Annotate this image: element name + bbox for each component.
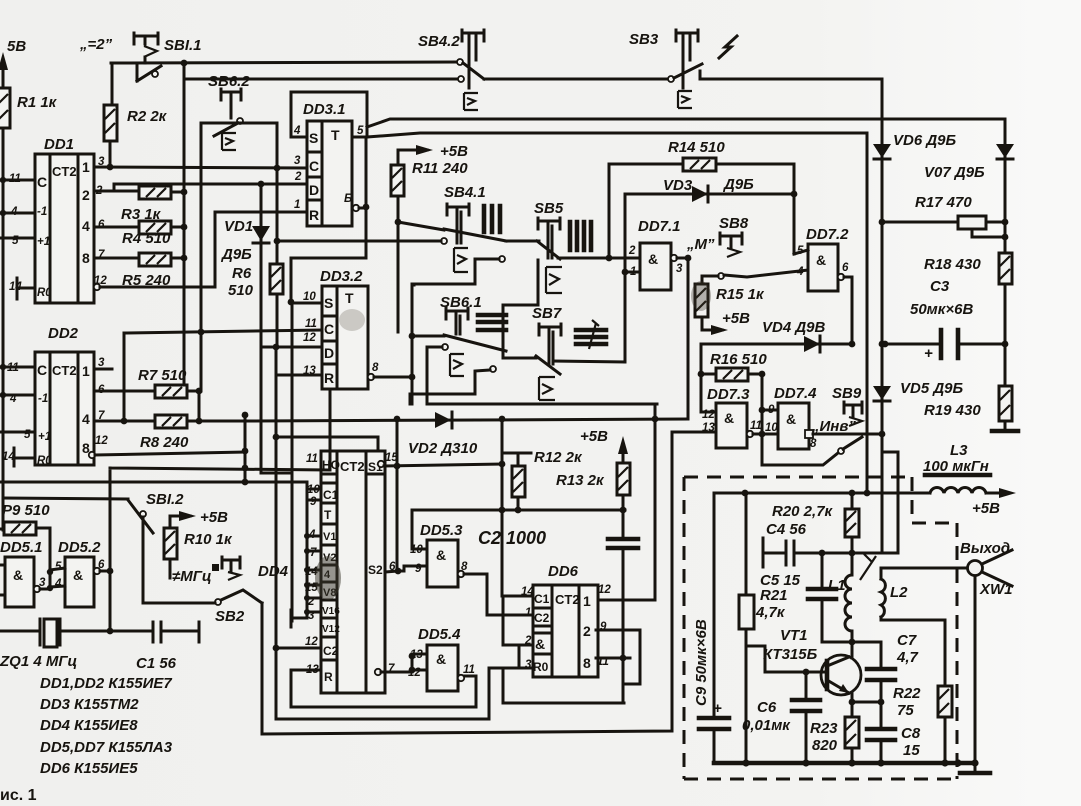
scan smudge in DD3.2 bbox=[339, 309, 365, 331]
wire SB6.2 left drop bbox=[200, 123, 203, 391]
svg-text:R0: R0 bbox=[37, 287, 52, 299]
svg-text:820: 820 bbox=[812, 737, 838, 754]
wire DD4 C2 loop2 bbox=[276, 668, 519, 719]
svg-text:R8 240: R8 240 bbox=[140, 434, 189, 451]
svg-text:6: 6 bbox=[98, 219, 105, 231]
wire long horizontal y482 bbox=[0, 482, 307, 489]
svg-text:C4 56: C4 56 bbox=[766, 521, 807, 538]
wire R14/VD3 node to DD7.2 pin5 bbox=[794, 250, 808, 254]
svg-text:T: T bbox=[345, 290, 354, 306]
resistor R22 bbox=[893, 685, 952, 763]
node +5V left rail arrow bbox=[0, 38, 26, 530]
svg-text:R: R bbox=[324, 370, 334, 386]
svg-text:&: & bbox=[73, 567, 83, 583]
svg-text:-1: -1 bbox=[38, 393, 48, 405]
wire DD7.1 out to SB8 bbox=[677, 257, 688, 260]
wire C input DD3.2 from R7 loop bbox=[124, 330, 322, 333]
svg-text:L2: L2 bbox=[890, 584, 908, 601]
wire DD3.2 out8 bbox=[374, 285, 414, 404]
svg-text:D: D bbox=[324, 345, 334, 361]
capacitor C6 bbox=[742, 672, 820, 763]
svg-text:+5В: +5В bbox=[440, 143, 468, 160]
svg-text:5В: 5В bbox=[7, 38, 26, 55]
IC DD6 counter K155IE5 bbox=[521, 563, 611, 677]
svg-text:11: 11 bbox=[463, 664, 475, 676]
svg-text:2: 2 bbox=[628, 245, 636, 257]
svg-text:&: & bbox=[13, 567, 23, 583]
svg-text:+: + bbox=[924, 345, 933, 362]
wire DD6 pin11 out bbox=[596, 657, 630, 660]
svg-text:DD1,DD2 К155ИЕ7: DD1,DD2 К155ИЕ7 bbox=[40, 675, 172, 692]
svg-text:+1: +1 bbox=[38, 431, 51, 443]
node +5V R13 arrow bbox=[580, 428, 628, 463]
svg-text:10: 10 bbox=[765, 422, 778, 434]
svg-text:12: 12 bbox=[95, 435, 108, 447]
switch SB4.2 bbox=[418, 30, 484, 110]
svg-text:C2 1000: C2 1000 bbox=[478, 528, 546, 548]
wire DD1 out1 to DD3.1 C bbox=[94, 167, 307, 168]
svg-text:DD2: DD2 bbox=[48, 325, 79, 342]
switch SB9 bbox=[832, 385, 862, 454]
switch SB3 bbox=[629, 30, 702, 108]
svg-text:С9 50мк×6В: С9 50мк×6В bbox=[693, 619, 710, 706]
svg-text:1: 1 bbox=[583, 593, 591, 609]
svg-text:S: S bbox=[309, 130, 318, 146]
svg-text:C: C bbox=[37, 174, 47, 190]
wire DD5.3 pin9 from S2 bbox=[398, 566, 427, 571]
IC DD5.2 NAND bbox=[54, 539, 105, 607]
svg-text:R0: R0 bbox=[37, 455, 52, 467]
svg-text:&: & bbox=[436, 651, 446, 667]
svg-text:DD1: DD1 bbox=[44, 136, 74, 153]
svg-text:DD7.3: DD7.3 bbox=[707, 386, 750, 403]
wire rail to SB1.2 area bbox=[3, 389, 330, 631]
svg-text:R: R bbox=[309, 207, 319, 223]
svg-text:R15 1к: R15 1к bbox=[716, 286, 765, 303]
wire R input DD3.2 bbox=[276, 374, 322, 377]
resistor R3 bbox=[94, 186, 187, 223]
diode VD6 bbox=[873, 132, 957, 159]
svg-text:R21: R21 bbox=[760, 587, 788, 604]
svg-text:V07 Д9Б: V07 Д9Б bbox=[924, 164, 985, 181]
resistor R14 bbox=[668, 139, 794, 254]
wire emitter node bbox=[852, 693, 881, 702]
svg-text:&: & bbox=[648, 251, 658, 267]
svg-text:S: S bbox=[324, 295, 333, 311]
wire junction up to R14 bbox=[609, 164, 683, 258]
svg-text:C: C bbox=[324, 321, 334, 337]
wire DD2 pin12 line bbox=[95, 452, 245, 455]
resistor R19 with ground bbox=[924, 344, 1018, 431]
svg-text:C: C bbox=[37, 362, 47, 378]
svg-text:CT2: CT2 bbox=[52, 164, 77, 179]
scan smudge near DD4 pins bbox=[315, 556, 341, 600]
ground symbol bbox=[974, 763, 977, 772]
svg-text:VD2 Д310: VD2 Д310 bbox=[408, 440, 478, 457]
svg-text:DD5.3: DD5.3 bbox=[420, 522, 463, 539]
wire SB6.1 contact to lower bus bbox=[427, 347, 657, 404]
inductor L2 bbox=[881, 568, 945, 686]
wire DD5.3 out to DD6 C2 bbox=[464, 574, 533, 615]
transistor VT1 bbox=[763, 627, 861, 695]
svg-text:&: & bbox=[724, 410, 734, 426]
svg-text:CT2: CT2 bbox=[555, 592, 580, 607]
svg-text:12: 12 bbox=[305, 636, 318, 648]
core arrow between L1 L2 bbox=[860, 554, 876, 580]
svg-text:S2: S2 bbox=[368, 563, 383, 577]
svg-text:V12: V12 bbox=[322, 624, 340, 635]
svg-text:+: + bbox=[713, 700, 722, 717]
long wire upper y119 bbox=[367, 119, 1005, 127]
svg-text:CT2: CT2 bbox=[340, 459, 365, 474]
resistor R11 bbox=[391, 160, 468, 222]
resistor R6 bbox=[228, 168, 283, 350]
svg-text:≠МГц: ≠МГц bbox=[172, 568, 212, 585]
svg-text:Д9Б: Д9Б bbox=[722, 176, 754, 193]
svg-text:R20 2,7к: R20 2,7к bbox=[772, 503, 834, 520]
svg-text:7: 7 bbox=[310, 547, 317, 559]
svg-text:V1: V1 bbox=[323, 531, 336, 543]
svg-text:CT2: CT2 bbox=[52, 363, 77, 378]
wire oscillator ground rail bbox=[714, 761, 975, 766]
svg-text:5: 5 bbox=[55, 561, 62, 573]
ferrite bars SB4.1 bbox=[484, 206, 500, 232]
svg-text:+1: +1 bbox=[37, 236, 50, 248]
wire DD6 R0 big loop bbox=[503, 668, 624, 703]
svg-text:4: 4 bbox=[54, 578, 62, 590]
svg-text:SB6.2: SB6.2 bbox=[208, 73, 250, 90]
svg-text:R22: R22 bbox=[893, 685, 921, 702]
IC DD5.3 NAND bbox=[410, 522, 468, 587]
svg-text:2: 2 bbox=[583, 623, 591, 639]
svg-text:R: R bbox=[324, 670, 333, 684]
svg-text:+5В: +5В bbox=[200, 509, 228, 526]
svg-text:3: 3 bbox=[676, 263, 683, 275]
switch SB1.2 bbox=[128, 491, 184, 603]
wire DD7.2 out to VD4 line bbox=[844, 277, 852, 344]
wire node line y510 bbox=[412, 509, 625, 512]
svg-text:&: & bbox=[786, 411, 796, 427]
resistor R1 bbox=[0, 88, 58, 128]
wire DD4 S2 out bbox=[385, 571, 398, 572]
svg-text:14: 14 bbox=[521, 586, 534, 598]
wire DD1 pin12 to SB6.2 line bbox=[100, 286, 215, 289]
switch SB8 bbox=[718, 215, 808, 279]
wire L2 top to XW1 bbox=[881, 567, 967, 570]
IC DD7.3 NAND bbox=[702, 386, 762, 448]
wire DD5.2 out bbox=[100, 570, 110, 573]
svg-text:L1: L1 bbox=[828, 577, 846, 594]
wire SB8 contact to R15 bbox=[702, 276, 718, 284]
capacitor C2 bbox=[478, 510, 638, 659]
resistor R16 bbox=[701, 351, 767, 381]
svg-text:R12 2к: R12 2к bbox=[534, 449, 583, 466]
wire DD1 out2 to DD3.1 D bbox=[114, 184, 307, 190]
wire lower line to SB4.2 bbox=[184, 63, 460, 79]
svg-text:8: 8 bbox=[82, 250, 90, 266]
wire SB5 output to DD7.1 bbox=[558, 257, 640, 260]
wire VD4 node down to R16 bbox=[701, 344, 716, 412]
svg-text:11: 11 bbox=[750, 420, 762, 432]
wire SB9 loop back to DD7.3 area bbox=[762, 436, 838, 465]
svg-text:1: 1 bbox=[82, 363, 90, 379]
svg-text:КТ315Б: КТ315Б bbox=[763, 646, 818, 663]
resistor R2 bbox=[104, 105, 168, 167]
svg-text:1: 1 bbox=[82, 159, 90, 175]
svg-text:4: 4 bbox=[293, 125, 301, 137]
svg-text:VT1: VT1 bbox=[780, 627, 808, 644]
wire oscillator +5V rail bbox=[714, 492, 930, 495]
resistor R9 bbox=[0, 502, 50, 588]
svg-text:R1 1к: R1 1к bbox=[17, 94, 58, 111]
svg-text:15: 15 bbox=[903, 742, 920, 759]
svg-text:8: 8 bbox=[583, 655, 591, 671]
svg-text:SB7: SB7 bbox=[532, 305, 562, 322]
svg-text:VD4 Д9В: VD4 Д9В bbox=[762, 319, 826, 336]
switch SB6.1 bbox=[440, 294, 506, 376]
svg-text:C1 56: C1 56 bbox=[136, 655, 177, 672]
svg-text:R13 2к: R13 2к bbox=[556, 472, 605, 489]
svg-text:R18 430: R18 430 bbox=[924, 256, 981, 273]
wire R8 loop left bbox=[123, 333, 126, 421]
wire DD4 S1 pin15 to bus bbox=[384, 464, 502, 466]
svg-text:DD7.4: DD7.4 bbox=[774, 385, 817, 402]
resistor R23 bbox=[810, 702, 859, 763]
resistor R8 bbox=[94, 415, 250, 451]
svg-text:R14 510: R14 510 bbox=[668, 139, 725, 156]
svg-text:+5В: +5В bbox=[580, 428, 608, 445]
resistor R10 bbox=[164, 528, 233, 578]
diode VD1 bbox=[220, 184, 292, 473]
wire DD4 S-pins vertical from VD2 bus bbox=[396, 419, 399, 571]
svg-text:С8: С8 bbox=[901, 725, 921, 742]
svg-text:R19 430: R19 430 bbox=[924, 402, 981, 419]
svg-text:SB3: SB3 bbox=[629, 31, 659, 48]
svg-text:SB2: SB2 bbox=[215, 608, 245, 625]
terminal bar DD4 pin3 bbox=[291, 610, 307, 627]
wire DD1 pin11 C input bbox=[3, 179, 35, 182]
svg-text:10: 10 bbox=[303, 291, 316, 303]
node +5V R10 arrow bbox=[170, 509, 228, 528]
wire R2 drop from =2 bbox=[111, 63, 114, 105]
IC DD2 counter K155IE7 bbox=[2, 325, 112, 467]
svg-text:DD3 К155ТМ2: DD3 К155ТМ2 bbox=[40, 696, 139, 713]
svg-text:VD1: VD1 bbox=[224, 218, 253, 235]
svg-text:DD6: DD6 bbox=[548, 563, 579, 580]
wire bus to SB4.1 contact bbox=[277, 240, 441, 243]
wire DD2 pin4 bbox=[3, 394, 35, 397]
wire DD3.1 R from reset bus bbox=[215, 212, 307, 287]
wire DD6 pin12 up bbox=[596, 599, 655, 602]
switch SB1.1 bbox=[134, 33, 202, 81]
svg-text:DD7.1: DD7.1 bbox=[638, 218, 681, 235]
wire SB3 to right corner down VD6 bbox=[700, 71, 882, 553]
capacitor C9 bbox=[699, 493, 729, 763]
svg-text:C2: C2 bbox=[534, 611, 550, 625]
dashed shield box bbox=[684, 477, 957, 779]
resistor R15 bbox=[695, 284, 765, 335]
wire DD4 pin7 to DD5.4 bbox=[381, 671, 412, 674]
svg-text:VD5 Д9Б: VD5 Д9Б bbox=[900, 380, 964, 397]
svg-text:1: 1 bbox=[294, 199, 300, 211]
svg-text:ZQ1 4 МГц: ZQ1 4 МГц bbox=[0, 653, 77, 670]
svg-text:4: 4 bbox=[82, 411, 90, 427]
svg-text:R23: R23 bbox=[810, 720, 838, 737]
wire =2 to SB1.1 bbox=[111, 62, 457, 63]
svg-text:C: C bbox=[309, 158, 319, 174]
wire VD2 bus drop to y510 at x502 bbox=[502, 419, 533, 596]
svg-text:T: T bbox=[331, 127, 340, 143]
IC DD4 counter K155IE8 bbox=[258, 451, 398, 693]
svg-text:DD6 К155ИЕ5: DD6 К155ИЕ5 bbox=[40, 760, 138, 777]
svg-text:C1: C1 bbox=[534, 592, 550, 606]
svg-text:&: & bbox=[535, 636, 545, 652]
svg-text:+5В: +5В bbox=[722, 310, 750, 327]
svg-text:R7 510: R7 510 bbox=[138, 367, 187, 384]
wire D input DD3.2 from VD1 bbox=[261, 346, 322, 349]
wire SB7 pivot chain and output bbox=[503, 260, 538, 358]
svg-text:SB5: SB5 bbox=[534, 200, 564, 217]
wire DD3.2 S pin bbox=[291, 302, 322, 305]
svg-text:&: & bbox=[816, 252, 826, 268]
wire DD2 pin11 C bbox=[3, 366, 35, 369]
svg-text:„=2”: „=2” bbox=[79, 36, 113, 53]
svg-text:SB8: SB8 bbox=[719, 215, 749, 232]
svg-text:15: 15 bbox=[385, 452, 398, 464]
capacitor C4 bbox=[763, 521, 898, 567]
wire SB2 long bottom loop bbox=[262, 432, 672, 734]
svg-text:11: 11 bbox=[305, 318, 317, 330]
svg-text:DD4 К155ИЕ8: DD4 К155ИЕ8 bbox=[40, 717, 138, 734]
svg-text:DD5,DD7 К155ЛА3: DD5,DD7 К155ЛА3 bbox=[40, 739, 173, 756]
svg-text:12: 12 bbox=[702, 409, 715, 421]
wire DD5.3 pin10 from y510 bbox=[412, 510, 427, 549]
svg-text:5: 5 bbox=[357, 125, 364, 137]
scan smudge near R15 bbox=[691, 281, 711, 311]
svg-text:DD5.4: DD5.4 bbox=[418, 626, 461, 643]
text IC list bbox=[40, 675, 173, 777]
diode VD4 bbox=[701, 319, 855, 352]
diode VD3 bbox=[625, 176, 797, 202]
svg-text:VD6 Д9Б: VD6 Д9Б bbox=[893, 132, 957, 149]
ferrite bars SB5 bbox=[570, 222, 591, 250]
wire DD5.1 out to DD5.2 bbox=[40, 568, 65, 589]
wire DD2 pin5 bbox=[0, 431, 35, 434]
svg-text:8: 8 bbox=[810, 438, 817, 450]
resistor R17 bbox=[879, 194, 1009, 240]
long wire y134 bbox=[367, 133, 867, 493]
crystal ZQ1 bbox=[0, 619, 150, 670]
resistor R13 bbox=[556, 463, 630, 513]
svg-text:SB9: SB9 bbox=[832, 385, 862, 402]
svg-text:6: 6 bbox=[842, 262, 849, 274]
svg-text:11: 11 bbox=[306, 453, 318, 465]
wire R11 bottom drop bbox=[397, 222, 400, 332]
svg-text:L3: L3 bbox=[950, 442, 968, 459]
wire DD3.1 B output down to DD3.2 S frame bbox=[291, 137, 366, 302]
resistor R20 bbox=[772, 493, 859, 553]
IC DD3.1 T-flip-flop bbox=[291, 92, 367, 226]
wire SB1 chain down to SB1.2 bbox=[183, 79, 186, 388]
resistor R18 bbox=[924, 253, 1012, 284]
wire DD7.3 pin13 stub bbox=[672, 431, 716, 434]
svg-text:„М”: „М” bbox=[686, 236, 715, 253]
diode VD2 on long bus bbox=[250, 412, 688, 457]
svg-text:3: 3 bbox=[98, 357, 105, 369]
wire DD4 C2 pin bbox=[276, 647, 321, 650]
svg-text:SB4.1: SB4.1 bbox=[444, 184, 486, 201]
wire SB1.1 to SB4.2 top line bbox=[181, 60, 188, 67]
svg-text:2: 2 bbox=[82, 187, 90, 203]
switch SB7 bbox=[490, 305, 562, 400]
switch SB4.1 bbox=[441, 184, 506, 272]
wire SB5 contact loop back bbox=[412, 259, 499, 284]
wire DD1 pin14 with terminal bar bbox=[17, 278, 35, 299]
svg-text:9: 9 bbox=[768, 404, 775, 416]
svg-text:4: 4 bbox=[82, 218, 90, 234]
svg-text:R10 1к: R10 1к bbox=[184, 531, 233, 548]
wire DD6 pin9 loop bbox=[596, 630, 640, 684]
resistor R4 bbox=[94, 221, 187, 247]
capacitor C5 bbox=[760, 553, 855, 645]
switch SB6.2 bbox=[208, 73, 250, 150]
svg-text:R0: R0 bbox=[533, 660, 549, 674]
svg-text:50мк×6В: 50мк×6В bbox=[910, 301, 973, 318]
wire R11 to SB4.1 pivot bbox=[398, 222, 444, 230]
svg-text:3: 3 bbox=[39, 577, 46, 589]
IC DD7.1 NAND bbox=[628, 218, 683, 290]
connector XW1 bbox=[960, 540, 1013, 763]
svg-text:ис. 1: ис. 1 bbox=[0, 787, 37, 804]
svg-text:&: & bbox=[436, 547, 446, 563]
svg-text:3: 3 bbox=[294, 155, 301, 167]
svg-text:+5В: +5В bbox=[972, 500, 1000, 517]
svg-text:DD5.2: DD5.2 bbox=[58, 539, 101, 556]
inductor L1 bbox=[828, 553, 852, 658]
wire DD6 pins 2,3 bbox=[503, 645, 533, 668]
resistor R21 bbox=[739, 493, 788, 763]
svg-text:R4 510: R4 510 bbox=[122, 230, 171, 247]
wire DD1 pin5 bbox=[0, 237, 35, 240]
svg-text:C2: C2 bbox=[323, 644, 339, 658]
resistor R7 bbox=[94, 367, 202, 398]
svg-text:С6: С6 bbox=[757, 699, 777, 716]
switch SB5 bbox=[499, 200, 564, 293]
svg-text:2: 2 bbox=[294, 171, 302, 183]
svg-text:Р9 510: Р9 510 bbox=[2, 502, 50, 519]
IC DD1 counter K155IE7 bbox=[9, 136, 107, 303]
svg-text:R16 510: R16 510 bbox=[710, 351, 767, 368]
capacitor C8 bbox=[867, 702, 921, 763]
svg-text:SBI.1: SBI.1 bbox=[164, 37, 202, 54]
svg-text:SBI.2: SBI.2 bbox=[146, 491, 184, 508]
wire DD2 pin14 with terminal bar bbox=[14, 448, 35, 466]
svg-text:SB4.2: SB4.2 bbox=[418, 33, 460, 50]
IC DD5.1 NAND bbox=[0, 539, 46, 607]
capacitor C7 bbox=[852, 632, 919, 702]
wire VD3 vertical bbox=[624, 194, 627, 362]
svg-text:100 мкГн: 100 мкГн bbox=[923, 458, 989, 475]
wire DD7.3 out to DD7.4 inputs bbox=[753, 433, 778, 436]
svg-text:Д9Б: Д9Б bbox=[220, 246, 252, 263]
svg-text:DD3.1: DD3.1 bbox=[303, 101, 346, 118]
inductor L3 bbox=[923, 442, 1016, 517]
svg-text:R6: R6 bbox=[232, 265, 252, 282]
svg-text:9: 9 bbox=[310, 496, 317, 508]
wire DD4 top from DD3.2 R chain bbox=[275, 347, 278, 719]
IC DD7.4 NAND bbox=[765, 385, 817, 450]
capacitor C1 bbox=[136, 622, 199, 672]
